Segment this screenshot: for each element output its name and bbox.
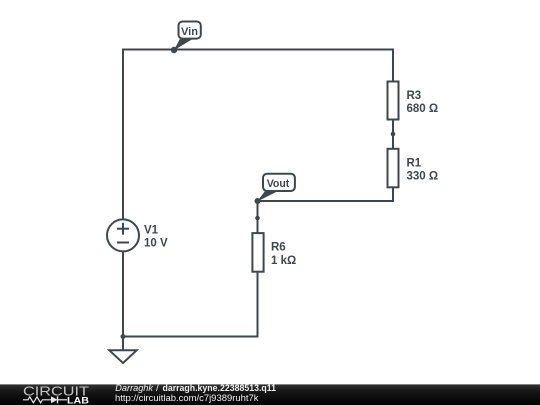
svg-text:Vout: Vout xyxy=(267,178,290,190)
node Vout junction dot at wire corner xyxy=(255,198,261,204)
footer bar xyxy=(0,384,540,405)
net flag Vout pointer xyxy=(257,191,278,202)
svg-text:680 Ω: 680 Ω xyxy=(407,103,439,115)
wire: R6 bottom down and left to ground node xyxy=(123,272,258,337)
svg-text:http://circuitlab.com/c7j9389r: http://circuitlab.com/c7j9389ruht7k xyxy=(115,393,259,404)
svg-text:330 Ω: 330 Ω xyxy=(407,170,439,182)
svg-text:Vin: Vin xyxy=(181,26,198,38)
wire: between R3 and R1 xyxy=(392,121,394,154)
svg-text:R6: R6 xyxy=(271,242,286,254)
wire: V1 minus terminal down to ground node xyxy=(122,251,124,336)
wire: net Vin from V1 plus terminal up, across top, down to R3 xyxy=(123,50,393,220)
node Vin junction dot on top wire xyxy=(171,47,177,53)
svg-text:R1: R1 xyxy=(407,157,422,169)
V1 plus sign xyxy=(117,228,129,230)
wire: Vout corner down to R6 top xyxy=(257,201,259,239)
svg-text:1 kΩ: 1 kΩ xyxy=(271,255,296,267)
CircuitLab logo: resistor zigzag xyxy=(23,397,51,403)
voltage source V1 circle xyxy=(107,219,139,251)
svg-text:10 V: 10 V xyxy=(144,238,168,250)
node junction between R3 and R1 xyxy=(391,132,396,137)
ground node junction dot xyxy=(121,334,126,339)
node junction on wire above R6 xyxy=(255,216,260,221)
ground symbol xyxy=(109,350,136,363)
svg-text:V1: V1 xyxy=(144,225,159,237)
resistor R3 body xyxy=(388,82,399,120)
svg-text:LAB: LAB xyxy=(67,395,90,405)
resistor R1 body xyxy=(388,149,399,188)
svg-text:R3: R3 xyxy=(407,90,422,102)
V1 minus sign xyxy=(117,242,129,244)
net flag Vin pointer xyxy=(174,39,193,51)
CircuitLab logo: diode xyxy=(51,396,58,403)
wire: from R1 bottom left to Vout corner xyxy=(258,188,394,201)
wire: ground stub xyxy=(122,337,124,351)
resistor R6 body xyxy=(252,233,263,272)
net flag Vin box xyxy=(179,22,201,39)
net flag Vout box xyxy=(263,174,295,191)
